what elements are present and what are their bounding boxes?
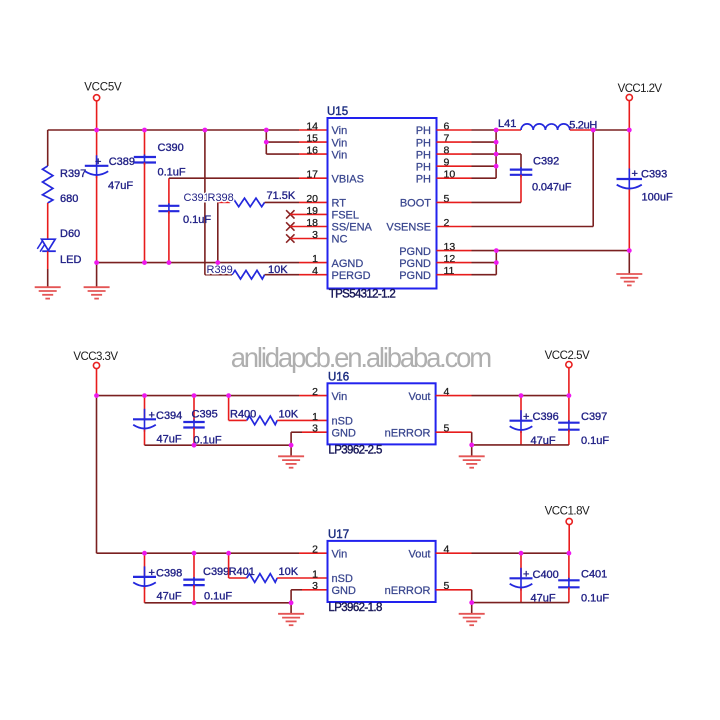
- svg-text:1: 1: [312, 253, 318, 265]
- svg-text:+: +: [95, 156, 101, 168]
- node top bus junctions: [94, 128, 268, 145]
- U16 pin names: [332, 391, 431, 440]
- capacitor C394: [133, 396, 182, 446]
- svg-text:C395: C395: [192, 409, 218, 421]
- capacitor C390: [134, 130, 186, 263]
- capacitor C396: [510, 396, 559, 447]
- svg-text:C401: C401: [581, 569, 607, 581]
- wire stub to ground: [471, 445, 473, 456]
- svg-text:+: +: [523, 411, 529, 423]
- node U17 ground junctions: [192, 600, 475, 605]
- svg-text:BOOT: BOOT: [400, 198, 431, 210]
- pin 18 no-connect X: [286, 222, 327, 230]
- svg-text:+: +: [523, 569, 529, 581]
- svg-text:VCC1.8V: VCC1.8V: [545, 506, 590, 518]
- svg-text:PGND: PGND: [399, 258, 431, 270]
- svg-text:Vin: Vin: [332, 137, 348, 149]
- node PGND junctions: [494, 248, 632, 265]
- wire PH pin6: [437, 129, 497, 131]
- svg-text:C392: C392: [533, 156, 559, 168]
- ground under C393: [616, 274, 642, 285]
- pin 19 no-connect X: [286, 210, 327, 218]
- wire VCC3.3V bus U16: [97, 395, 328, 397]
- node U16 Vout junctions: [519, 393, 572, 398]
- svg-text:0.1uF: 0.1uF: [183, 214, 211, 226]
- pin 3 no-connect X: [286, 234, 327, 242]
- U17 pin numbers: [312, 544, 449, 593]
- wire AGND net: [97, 263, 328, 287]
- wire VCC3.3V drop to U17: [96, 396, 98, 554]
- wire VSENSE feedback: [437, 130, 594, 227]
- svg-text:10K: 10K: [279, 566, 299, 578]
- ground under U16 GND: [278, 456, 304, 467]
- svg-text:3: 3: [312, 423, 318, 435]
- wire PH pin8 to C392: [437, 153, 522, 155]
- capacitor C397: [558, 396, 609, 447]
- svg-text:RT: RT: [332, 198, 347, 210]
- wire PGND pin11: [437, 274, 497, 276]
- svg-text:2: 2: [312, 544, 318, 556]
- svg-text:100uF: 100uF: [642, 192, 673, 204]
- wire R397 to D60: [47, 203, 49, 239]
- svg-text:L41: L41: [498, 118, 516, 130]
- svg-text:FSEL: FSEL: [332, 210, 360, 222]
- svg-text:0.1uF: 0.1uF: [158, 167, 186, 179]
- svg-text:C391: C391: [184, 192, 210, 204]
- svg-text:LP3962-2.5: LP3962-2.5: [328, 445, 382, 457]
- svg-text:Vout: Vout: [408, 548, 430, 560]
- wire C393 to ground: [628, 251, 630, 274]
- U15 left pin numbers: [306, 120, 318, 277]
- svg-text:10K: 10K: [268, 264, 288, 276]
- svg-text:18: 18: [306, 217, 318, 229]
- resistor R400 10K: [229, 396, 328, 425]
- power symbol VCC5V: [84, 82, 122, 131]
- svg-text:+: +: [149, 567, 155, 579]
- svg-text:Vin: Vin: [332, 149, 348, 161]
- svg-text:0.1uF: 0.1uF: [581, 435, 609, 447]
- node U16 bus junctions: [94, 393, 231, 398]
- svg-text:R397: R397: [60, 168, 86, 180]
- svg-text:47uF: 47uF: [157, 434, 182, 446]
- svg-text:0.1uF: 0.1uF: [581, 593, 609, 605]
- resistor R398 71.5K: [208, 190, 328, 263]
- svg-text:GND: GND: [332, 427, 357, 439]
- node U16 ground junctions: [192, 443, 475, 448]
- wire PH pin10: [437, 177, 497, 179]
- svg-text:R401: R401: [229, 566, 255, 578]
- svg-text:47uF: 47uF: [157, 590, 182, 602]
- wire U16 GND pin3: [291, 432, 327, 445]
- wire PH pin9: [437, 165, 497, 167]
- capacitor C392 bootstrap: [510, 154, 572, 202]
- wire stub to ground: [290, 445, 292, 456]
- wire PGND pin13: [437, 250, 630, 252]
- wire VBIAS pin17: [169, 177, 328, 179]
- svg-text:PH: PH: [416, 161, 431, 173]
- capacitor C398: [133, 553, 182, 603]
- ground under C389: [84, 287, 110, 298]
- svg-text:U16: U16: [328, 372, 349, 384]
- wire VCC3.3V bus U17: [97, 552, 328, 554]
- svg-text:4: 4: [312, 265, 318, 277]
- wire U16 Vout: [436, 395, 569, 397]
- wire Vin pins 15 16 vertical: [266, 130, 327, 154]
- resistor R401 10K: [229, 553, 328, 582]
- ground under U16 nERROR: [459, 456, 485, 467]
- U15 right pin names: [386, 125, 431, 282]
- svg-text:Vout: Vout: [408, 391, 430, 403]
- svg-text:SS/ENA: SS/ENA: [332, 222, 373, 234]
- wire U17 GND pin3: [291, 590, 327, 603]
- svg-text:15: 15: [306, 133, 318, 145]
- svg-text:20: 20: [306, 193, 318, 205]
- wire R399 pullup vertical: [204, 130, 206, 275]
- svg-text:PH: PH: [416, 173, 431, 185]
- svg-text:+: +: [632, 168, 638, 180]
- node AGND junctions: [94, 260, 220, 265]
- wire U17 Vout: [436, 552, 569, 554]
- wire D60 to ground: [47, 251, 49, 287]
- svg-text:R399: R399: [207, 264, 233, 276]
- op-amp U16 box: [328, 372, 436, 457]
- svg-text:C399: C399: [203, 566, 229, 578]
- svg-text:anlidapcb.en.alibaba.com: anlidapcb.en.alibaba.com: [231, 342, 493, 373]
- svg-text:TPS54312-1.2: TPS54312-1.2: [329, 289, 396, 301]
- svg-text:PGND: PGND: [399, 246, 431, 258]
- node PH junctions: [494, 128, 499, 169]
- wire U17 right ground line: [472, 602, 569, 604]
- capacitor C395: [183, 396, 222, 447]
- capacitor C389: [85, 130, 135, 263]
- svg-text:C389: C389: [109, 156, 135, 168]
- svg-text:17: 17: [306, 169, 318, 181]
- svg-text:3: 3: [312, 580, 318, 592]
- node U17 bus junctions: [142, 551, 231, 556]
- svg-text:C400: C400: [533, 569, 559, 581]
- wire R397 branch top: [47, 130, 49, 166]
- svg-text:R400: R400: [230, 409, 256, 421]
- svg-text:PERGD: PERGD: [332, 270, 371, 282]
- U16 pin numbers: [312, 386, 449, 435]
- svg-text:nSD: nSD: [332, 416, 353, 428]
- wire PH vertical bus: [495, 130, 497, 178]
- svg-text:C394: C394: [156, 410, 182, 422]
- svg-text:VCC1.2V: VCC1.2V: [618, 83, 663, 95]
- U17 pin names: [332, 548, 431, 597]
- capacitor C391: [158, 178, 211, 262]
- svg-text:C398: C398: [156, 567, 182, 579]
- svg-text:VSENSE: VSENSE: [386, 222, 431, 234]
- wire L41 to VCC1.2V: [593, 129, 629, 131]
- svg-text:C396: C396: [533, 411, 559, 423]
- svg-text:R398: R398: [208, 192, 234, 204]
- power symbol VCC1.2V: [618, 83, 663, 130]
- wire U17 nERROR pin5: [436, 590, 472, 603]
- wire VCC5V top bus: [48, 129, 328, 131]
- ground under U17 GND: [278, 614, 304, 625]
- inductor L41: [496, 118, 597, 132]
- svg-text:0.047uF: 0.047uF: [532, 182, 572, 194]
- wire BOOT pin5: [437, 201, 522, 203]
- U15 right pin numbers: [444, 120, 456, 277]
- wire stub to ground: [471, 603, 473, 614]
- svg-text:LP3962-1.8: LP3962-1.8: [328, 602, 382, 614]
- op-amp U17 box: [328, 529, 436, 614]
- svg-text:16: 16: [306, 145, 318, 157]
- op-amp U15 box: [327, 106, 437, 301]
- svg-text:GND: GND: [332, 585, 357, 597]
- svg-text:LED: LED: [60, 254, 81, 266]
- svg-text:nERROR: nERROR: [385, 585, 431, 597]
- svg-text:D60: D60: [60, 228, 80, 240]
- capacitor C401: [558, 553, 609, 604]
- diode D60 LED: [37, 228, 81, 266]
- node VCC1.2V output junctions: [591, 128, 632, 133]
- svg-text:1: 1: [312, 411, 318, 423]
- svg-text:VBIAS: VBIAS: [332, 173, 364, 185]
- svg-text:C390: C390: [158, 142, 184, 154]
- svg-text:AGND: AGND: [332, 258, 364, 270]
- svg-text:1: 1: [312, 568, 318, 580]
- svg-text:14: 14: [306, 120, 318, 132]
- resistor R397: [43, 166, 87, 205]
- power symbol VCC1.8V: [545, 506, 590, 554]
- wire U17 left ground line: [145, 602, 292, 604]
- svg-text:PH: PH: [416, 149, 431, 161]
- svg-text:U15: U15: [327, 106, 348, 118]
- svg-text:680: 680: [60, 193, 78, 205]
- node U17 Vout junctions: [519, 551, 572, 556]
- svg-text:19: 19: [306, 205, 318, 217]
- svg-text:PH: PH: [416, 125, 431, 137]
- svg-text:VCC3.3V: VCC3.3V: [73, 351, 118, 363]
- wire stub to ground: [290, 603, 292, 614]
- svg-text:0.1uF: 0.1uF: [204, 591, 232, 603]
- power symbol VCC2.5V: [545, 350, 590, 396]
- svg-text:VCC5V: VCC5V: [84, 82, 122, 94]
- wire PH pin7: [437, 141, 497, 143]
- svg-text:47uF: 47uF: [108, 180, 133, 192]
- capacitor C399: [183, 553, 232, 603]
- U15 left pin names: [332, 125, 373, 282]
- svg-text:PGND: PGND: [399, 270, 431, 282]
- capacitor C393: [617, 130, 673, 251]
- svg-text:3: 3: [312, 229, 318, 241]
- svg-text:VCC2.5V: VCC2.5V: [545, 350, 590, 362]
- svg-text:Vin: Vin: [332, 391, 348, 403]
- svg-text:U17: U17: [328, 529, 349, 541]
- svg-text:10K: 10K: [279, 409, 299, 421]
- wire PGND pin12: [437, 262, 497, 264]
- resistor R399 10K: [205, 264, 328, 279]
- wire U16 left ground line: [145, 444, 292, 446]
- wire U16 right ground line: [472, 444, 569, 446]
- svg-text:Vin: Vin: [332, 548, 348, 560]
- ground under U17 nERROR: [459, 614, 485, 625]
- svg-text:+: +: [149, 410, 155, 422]
- ground under D60: [35, 287, 61, 298]
- svg-text:C397: C397: [581, 411, 607, 423]
- svg-text:nERROR: nERROR: [385, 427, 431, 439]
- svg-text:Vin: Vin: [332, 125, 348, 137]
- svg-text:71.5K: 71.5K: [267, 190, 296, 202]
- svg-text:PH: PH: [416, 137, 431, 149]
- capacitor C400: [510, 553, 559, 604]
- svg-text:2: 2: [312, 386, 318, 398]
- svg-text:nSD: nSD: [332, 573, 353, 585]
- wire PGND vertical: [495, 251, 497, 275]
- svg-text:NC: NC: [332, 234, 348, 246]
- svg-text:C393: C393: [641, 169, 667, 181]
- power symbol VCC3.3V: [73, 351, 118, 396]
- wire U16 nERROR pin5: [436, 432, 472, 445]
